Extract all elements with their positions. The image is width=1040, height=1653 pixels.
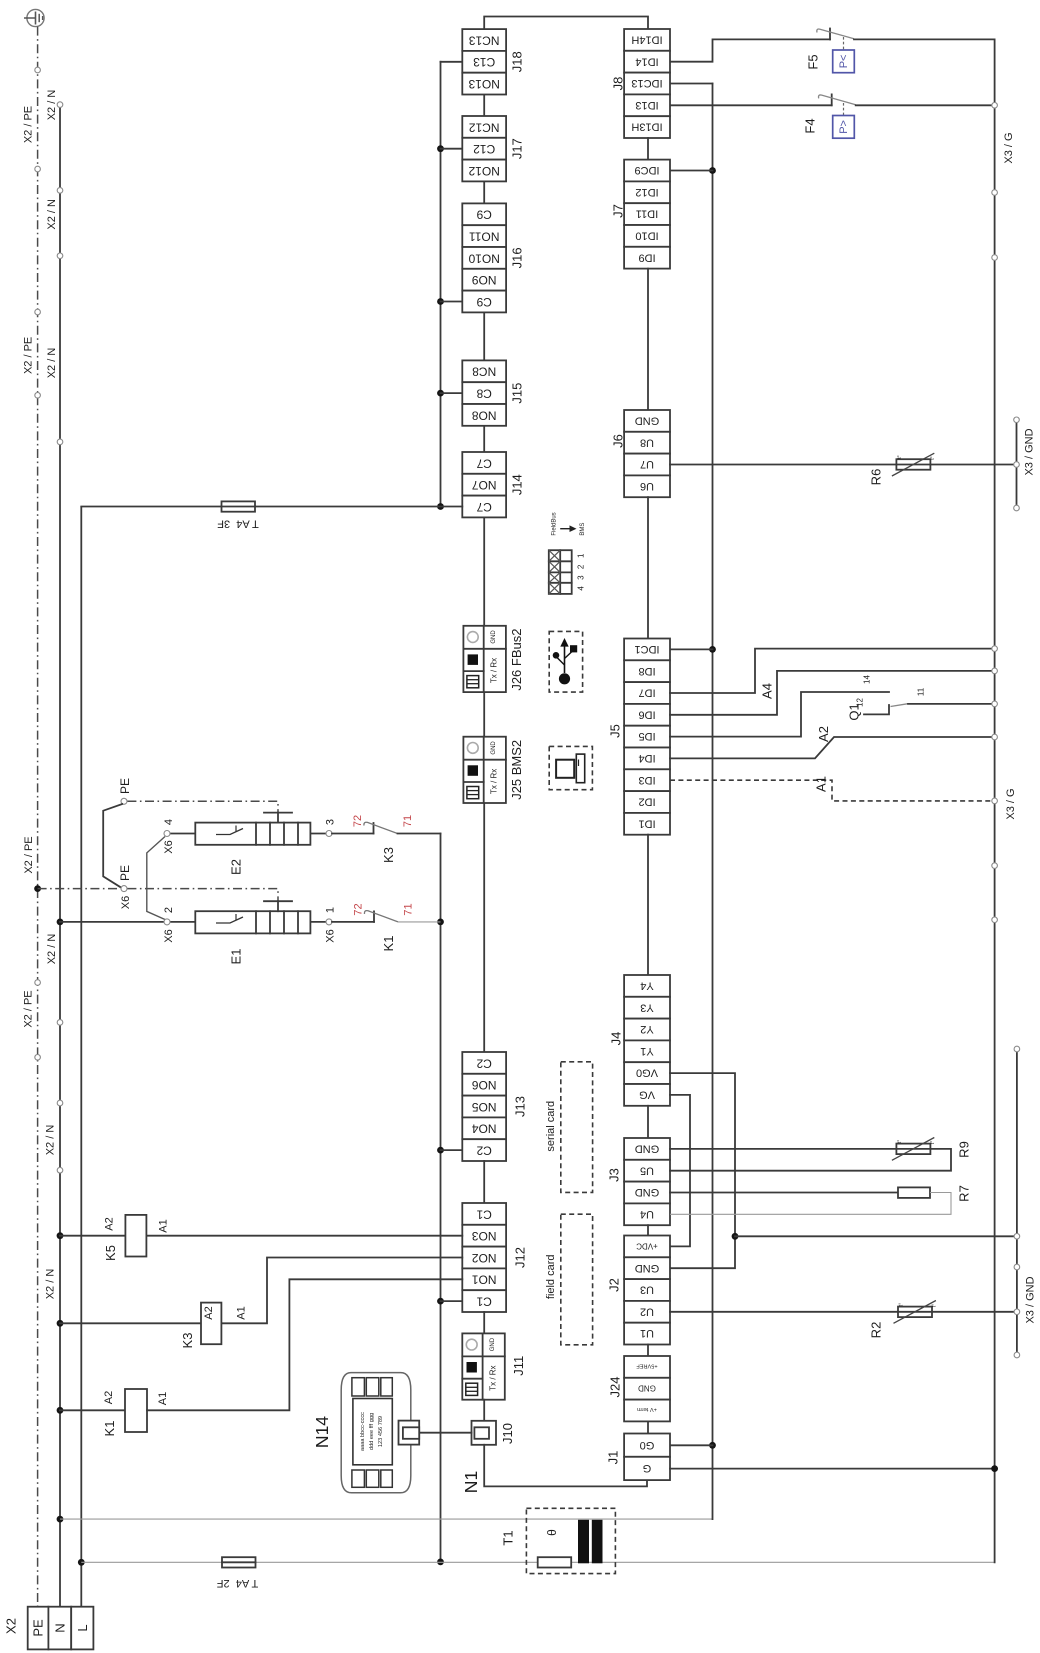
wire R9 return to U5 — [670, 1149, 951, 1171]
svg-text:A4: A4 — [760, 683, 775, 699]
svg-text:2: 2 — [163, 907, 175, 913]
svg-text:X2 / PE: X2 / PE — [22, 106, 34, 143]
svg-text:U3: U3 — [640, 1284, 654, 1296]
relay coil K3 — [57, 1258, 463, 1349]
svg-text:ID5: ID5 — [638, 730, 655, 742]
svg-text:71: 71 — [402, 815, 414, 827]
svg-text:G0: G0 — [640, 1439, 655, 1451]
thermistor R6 — [869, 453, 937, 485]
terminal block X2 — [4, 1607, 94, 1650]
wire link J15-J14 — [483, 426, 485, 452]
wire ID5 to Q1 — [670, 692, 889, 737]
fuse F2 — [217, 1557, 259, 1589]
wire common bus upper segment (C13..C7/F3) — [440, 62, 442, 507]
wire L rail from F3 down to X2 — [80, 507, 82, 1607]
svg-text:P<: P< — [838, 55, 850, 69]
PC / monitor icon (dashed) — [549, 746, 592, 789]
svg-text:X2 / N: X2 / N — [46, 199, 58, 230]
svg-text:4: 4 — [577, 586, 586, 591]
svg-text:Tx / Rx: Tx / Rx — [489, 1365, 498, 1390]
svg-text:BMS: BMS — [580, 523, 586, 536]
wire link J6-J5 — [647, 497, 649, 638]
connector J3 — [607, 1138, 671, 1225]
svg-text:A2: A2 — [203, 1306, 215, 1319]
svg-text:J10: J10 — [500, 1423, 515, 1444]
wire A2 (ID4 to X3/G) — [670, 737, 995, 758]
wire IDC1 to bus — [670, 648, 713, 650]
relay coil K5 — [57, 1215, 463, 1261]
svg-text:X2 / N: X2 / N — [46, 90, 58, 121]
connector J13 — [462, 1052, 527, 1161]
svg-text:GND: GND — [635, 415, 660, 427]
wire GND to R7 — [670, 1192, 898, 1194]
svg-text:1: 1 — [324, 907, 336, 913]
svg-text:X2 / PE: X2 / PE — [23, 836, 35, 873]
connector J4 — [609, 975, 671, 1106]
wire link J13-J12 — [483, 1161, 485, 1203]
jumper block 4x2 — [549, 550, 586, 594]
svg-text:NO2: NO2 — [472, 1251, 497, 1265]
junction C8 row — [437, 390, 444, 397]
svg-text:J14: J14 — [510, 474, 525, 495]
svg-text:J16: J16 — [510, 247, 525, 268]
thermistor R2 — [869, 1301, 938, 1339]
wire common bus lower segment (K contacts, C2, C1 to L line) — [440, 834, 442, 1562]
wire N rail to E1 — [57, 919, 196, 926]
transformer T1 — [501, 1508, 616, 1573]
svg-text:1: 1 — [577, 553, 586, 558]
wire ID13 to F4 — [670, 104, 832, 106]
svg-text:PE: PE — [118, 778, 132, 794]
svg-text:ID14H: ID14H — [631, 34, 662, 46]
wire link J24-J1 — [647, 1421, 649, 1433]
wire J10 to N14 — [419, 1432, 471, 1434]
svg-text:+V term: +V term — [637, 1406, 657, 1412]
svg-text:J8: J8 — [611, 77, 626, 91]
wire link J14-J26 — [483, 517, 485, 625]
svg-text:PE: PE — [31, 1619, 46, 1637]
svg-text:+5VREF: +5VREF — [636, 1363, 658, 1369]
wire C2 row — [441, 1149, 463, 1151]
wire link J18-J17 — [483, 95, 485, 117]
pressure switch F4 — [803, 94, 856, 138]
svg-text:t°: t° — [932, 1304, 938, 1307]
svg-text:ID6: ID6 — [638, 708, 655, 720]
svg-text:C1: C1 — [476, 1295, 492, 1309]
svg-text:X2 / N: X2 / N — [46, 934, 58, 965]
connector J26 FBus2 — [463, 626, 524, 692]
svg-text:NO10: NO10 — [468, 251, 500, 265]
svg-text:ID12: ID12 — [635, 186, 658, 198]
svg-text:NO5: NO5 — [472, 1100, 497, 1114]
wire F4 to X3/G — [856, 104, 995, 106]
svg-text:C8: C8 — [476, 387, 492, 401]
svg-text:J11: J11 — [511, 1356, 526, 1376]
wire X3/GND rail segment 2 — [1016, 1049, 1018, 1355]
wire IDC common bus (x=712) — [712, 84, 714, 1520]
svg-text:J17: J17 — [510, 138, 525, 159]
wire Q1 to X3/G — [908, 703, 995, 705]
connector J24 — [608, 1356, 671, 1421]
svg-text:A1: A1 — [157, 1219, 169, 1232]
wire IDC9 to bus — [670, 170, 713, 172]
wire N to G0 bus (transformer secondary common) — [57, 1516, 713, 1523]
wire C1 row — [441, 1300, 463, 1302]
connector J5 — [608, 639, 671, 835]
svg-text:VG0: VG0 — [636, 1067, 658, 1079]
svg-text:Tx / Rx: Tx / Rx — [490, 769, 499, 794]
wire VG0 to GND J2 — [670, 1073, 735, 1268]
svg-text:J24: J24 — [608, 1377, 623, 1398]
contact K1 (71-72) — [352, 903, 440, 951]
svg-text:R9: R9 — [957, 1141, 972, 1158]
svg-text:C9: C9 — [476, 208, 492, 222]
svg-text:4: 4 — [163, 819, 175, 825]
svg-text:K1: K1 — [381, 936, 396, 952]
wire G to X3/G — [670, 1468, 995, 1470]
svg-text:J26 FBus2: J26 FBus2 — [509, 629, 524, 691]
svg-text:3: 3 — [324, 819, 336, 825]
svg-text:ID9: ID9 — [638, 251, 655, 263]
wire C12 row — [441, 148, 463, 150]
connector J1 — [606, 1434, 671, 1481]
serial card dashed box — [561, 1062, 593, 1193]
connector J25 BMS2 — [463, 737, 524, 803]
junction G row on X3/G — [991, 1465, 998, 1472]
connector J17 — [462, 116, 524, 181]
svg-text:J7: J7 — [611, 204, 626, 218]
svg-text:field card: field card — [545, 1254, 557, 1299]
svg-text:14: 14 — [863, 675, 872, 684]
svg-text:J2: J2 — [607, 1278, 622, 1292]
svg-text:72: 72 — [352, 903, 364, 915]
svg-text:X6: X6 — [163, 929, 175, 942]
svg-text:C13: C13 — [473, 55, 495, 69]
junction VG0 branch to X3/GND — [732, 1233, 739, 1240]
svg-text:NO9: NO9 — [472, 273, 497, 287]
controller N1 outline bottom — [484, 1445, 647, 1487]
svg-text:aaaa bbcc-cccc: aaaa bbcc-cccc — [360, 1412, 366, 1451]
wire link J17-J16 — [483, 181, 485, 203]
svg-text:NO12: NO12 — [468, 164, 500, 178]
wire F3 row from L rail to C7 — [81, 506, 462, 508]
wire top link J18 to J8 — [484, 17, 648, 30]
svg-text:T1: T1 — [501, 1530, 516, 1545]
svg-text:X6: X6 — [324, 929, 336, 942]
svg-text:A2: A2 — [103, 1391, 115, 1404]
svg-text:IDC13: IDC13 — [631, 77, 662, 89]
wire X3/GND rail segment 1 — [1016, 420, 1018, 508]
junction bus to L secondary line — [437, 1559, 444, 1566]
svg-text:K1: K1 — [102, 1421, 117, 1437]
heater E2 — [163, 813, 374, 875]
svg-text:X2 / PE: X2 / PE — [23, 990, 35, 1027]
svg-text:G: G — [643, 1462, 652, 1474]
svg-text:71: 71 — [402, 903, 414, 915]
svg-text:N14: N14 — [312, 1416, 332, 1448]
wire link J26-J25 — [483, 692, 485, 737]
svg-text:J4: J4 — [609, 1032, 624, 1046]
heater E1 — [163, 901, 374, 964]
svg-text:t°: t° — [930, 456, 936, 459]
svg-text:U5: U5 — [640, 1164, 654, 1176]
svg-text:K5: K5 — [103, 1245, 118, 1261]
field card dashed box — [561, 1214, 593, 1345]
svg-text:ddd eee fff ggg: ddd eee fff ggg — [369, 1413, 375, 1450]
svg-text:A2: A2 — [103, 1217, 115, 1230]
junction G0 — [709, 1442, 716, 1449]
svg-text:t°: t° — [930, 1141, 936, 1144]
svg-text:X2 / N: X2 / N — [46, 348, 58, 379]
svg-text:C9: C9 — [476, 295, 492, 309]
svg-text:NC13: NC13 — [469, 33, 500, 47]
svg-text:NO8: NO8 — [472, 408, 497, 422]
svg-text:NO11: NO11 — [469, 230, 500, 244]
svg-text:GND: GND — [635, 1262, 660, 1274]
svg-text:Y2: Y2 — [640, 1023, 653, 1035]
wire X2/N rail — [59, 105, 61, 1607]
svg-text:J18: J18 — [510, 51, 525, 72]
svg-text:NO13: NO13 — [468, 77, 500, 91]
svg-text:X6: X6 — [163, 840, 175, 853]
auxiliary contact Q1 — [847, 675, 926, 721]
wire link J5-J4 — [647, 835, 649, 975]
svg-text:NO3: NO3 — [472, 1229, 497, 1243]
svg-text:U1: U1 — [640, 1327, 654, 1339]
connector J2 — [607, 1236, 671, 1345]
wire C9 row — [441, 301, 463, 303]
wire A1 dashed (ID3 to X3/G) — [670, 780, 995, 801]
svg-text:C7: C7 — [476, 456, 492, 470]
wire link J3-J2 — [647, 1225, 649, 1235]
svg-text:Y1: Y1 — [640, 1045, 653, 1057]
wire link J11-J10 — [483, 1400, 485, 1421]
connector J18 — [462, 29, 524, 94]
svg-text:N1: N1 — [461, 1471, 481, 1493]
svg-text:X2 / N: X2 / N — [44, 1269, 56, 1300]
svg-text:serial card: serial card — [545, 1101, 557, 1152]
svg-text:t°: t° — [897, 455, 903, 458]
connector J15 — [462, 360, 524, 425]
wire R7 return to U4 — [670, 1193, 951, 1215]
svg-text:t°: t° — [899, 1303, 905, 1306]
svg-text:Y3: Y3 — [640, 1001, 653, 1013]
svg-text:J1: J1 — [606, 1451, 621, 1465]
svg-text:A1: A1 — [157, 1392, 169, 1405]
svg-text:C2: C2 — [476, 1056, 492, 1070]
wire link J12-J11 — [483, 1312, 485, 1333]
svg-text:X2 / N: X2 / N — [44, 1125, 56, 1156]
node markers on X3/G rail — [992, 103, 998, 923]
svg-text:K3: K3 — [381, 847, 396, 863]
svg-text:ID7: ID7 — [638, 687, 655, 699]
junction C12 row — [437, 145, 444, 152]
svg-text:ID13H: ID13H — [631, 121, 662, 133]
svg-text:72: 72 — [352, 815, 364, 827]
svg-text:GND: GND — [491, 741, 497, 755]
svg-text:NO7: NO7 — [472, 478, 497, 492]
svg-text:NO4: NO4 — [472, 1122, 497, 1136]
wire branch to X3/GND — [735, 1235, 1017, 1237]
svg-text:θ: θ — [545, 1529, 559, 1536]
svg-text:J5: J5 — [608, 724, 623, 738]
svg-text:ID8: ID8 — [638, 665, 655, 677]
wire A4 (ID7 to X3/G) — [670, 649, 995, 693]
svg-text:IDC1: IDC1 — [634, 643, 659, 655]
svg-text:NC8: NC8 — [472, 365, 496, 379]
wire X3/G rail — [994, 39, 996, 1562]
junction IDC1 — [709, 646, 716, 653]
svg-text:GND: GND — [635, 1186, 660, 1198]
svg-text:J25 BMS2: J25 BMS2 — [509, 740, 524, 800]
wire link J2-J24 — [647, 1345, 649, 1357]
connector J10 — [472, 1421, 516, 1445]
connector J14 — [462, 452, 524, 517]
wire IDC13 to bus — [670, 83, 713, 85]
svg-text:X3 / G: X3 / G — [1003, 132, 1015, 163]
svg-text:N: N — [52, 1623, 67, 1632]
connector J11 — [462, 1333, 526, 1399]
wire X2/PE rail (dash-dot) — [37, 27, 39, 1607]
connector J8 — [611, 29, 671, 138]
wire VG to +VDC — [670, 1095, 690, 1247]
svg-text:GND: GND — [638, 1384, 656, 1393]
svg-text:U6: U6 — [640, 480, 654, 492]
svg-text:R2: R2 — [869, 1322, 884, 1339]
svg-text:ID11: ID11 — [636, 208, 658, 220]
wire C8 row — [441, 392, 463, 394]
svg-text:123 456 789: 123 456 789 — [378, 1416, 384, 1447]
svg-text:X3 / GND: X3 / GND — [1024, 428, 1036, 475]
svg-text:ID1: ID1 — [638, 817, 655, 829]
svg-text:NO6: NO6 — [472, 1078, 497, 1092]
connector J16 — [462, 203, 524, 312]
svg-text:R7: R7 — [957, 1185, 972, 1202]
node markers on N rail — [57, 102, 63, 1173]
wire link J7-J6 — [647, 269, 649, 410]
svg-text:GND: GND — [490, 1337, 496, 1351]
relay coil K1 — [57, 1279, 463, 1436]
contact K3 (71-72) — [352, 815, 441, 863]
svg-text:ID14: ID14 — [635, 55, 658, 67]
junction C1 row — [437, 1298, 444, 1305]
svg-text:ID3: ID3 — [638, 774, 655, 786]
svg-text:Y4: Y4 — [640, 980, 653, 992]
wire link J25-J13 — [483, 803, 485, 1052]
svg-text:GND: GND — [491, 630, 497, 644]
junction F3 row — [437, 503, 444, 510]
svg-text:E1: E1 — [229, 949, 244, 965]
ground PE terminal symbol — [24, 9, 44, 26]
wire R6 to X3/GND — [930, 464, 1016, 466]
svg-text:U2: U2 — [640, 1305, 654, 1317]
FieldBus / BMS selector note — [552, 512, 587, 535]
wire GND to R9 — [670, 1148, 896, 1150]
svg-text:E2: E2 — [229, 859, 244, 875]
svg-text:J13: J13 — [513, 1096, 528, 1117]
svg-text:Q1: Q1 — [847, 703, 862, 720]
svg-text:A1: A1 — [235, 1306, 247, 1319]
svg-text:C1: C1 — [476, 1207, 492, 1221]
pressure switch F5 — [806, 29, 855, 73]
node markers on PE rail — [35, 67, 41, 1060]
wire PE link between X6 terminals — [103, 804, 122, 887]
svg-text:J12: J12 — [513, 1247, 528, 1268]
wire G0 to bus — [670, 1444, 713, 1446]
svg-text:NC12: NC12 — [469, 120, 500, 134]
svg-text:L: L — [75, 1624, 90, 1631]
svg-text:A1: A1 — [814, 776, 829, 792]
svg-text:J3: J3 — [607, 1168, 622, 1182]
svg-text:NO1: NO1 — [472, 1273, 497, 1287]
svg-text:T A4 2F: T A4 2F — [217, 1577, 259, 1589]
thermistor R9 — [892, 1138, 972, 1161]
svg-text:X6: X6 — [120, 896, 132, 909]
svg-text:PE: PE — [118, 865, 132, 881]
svg-text:t°: t° — [897, 1140, 903, 1143]
svg-text:U7: U7 — [640, 458, 654, 470]
PE branch to E2 (dash-dot) — [118, 778, 278, 813]
svg-text:F4: F4 — [803, 118, 818, 133]
svg-text:ID4: ID4 — [638, 752, 655, 764]
fuse F3 — [217, 501, 259, 529]
svg-text:11: 11 — [917, 687, 926, 696]
svg-text:U4: U4 — [640, 1208, 654, 1220]
svg-text:F5: F5 — [806, 54, 821, 69]
svg-text:ID13: ID13 — [635, 99, 658, 111]
svg-text:X2: X2 — [4, 1618, 19, 1634]
junction C9 row — [437, 298, 444, 305]
junction IDC9 — [709, 167, 716, 174]
svg-text:2: 2 — [577, 564, 586, 569]
wire U7 to R6 — [670, 464, 896, 466]
svg-text:T A4 3F: T A4 3F — [217, 518, 259, 530]
wire link J4-J3 — [647, 1106, 649, 1138]
svg-text:ID2: ID2 — [638, 796, 655, 808]
wire C13 row — [441, 61, 463, 63]
PE branch from rail to X6/PE (dash-dot) — [34, 865, 278, 909]
junction C2 row — [437, 1147, 444, 1154]
svg-text:+VDC: +VDC — [636, 1241, 658, 1250]
svg-text:K3: K3 — [180, 1333, 195, 1349]
svg-text:VG: VG — [639, 1089, 655, 1101]
wire R2 to X3/GND — [932, 1311, 1017, 1313]
svg-text:FieldBus: FieldBus — [552, 512, 558, 535]
wire F5 to X3/G — [854, 38, 995, 40]
resistor R7 — [898, 1185, 972, 1202]
svg-text:X2 / PE: X2 / PE — [22, 337, 34, 374]
connector J6 — [611, 410, 671, 497]
display terminal N14 — [312, 1373, 419, 1493]
svg-text:A2: A2 — [816, 726, 831, 742]
junction K1 row — [437, 919, 444, 926]
svg-text:C7: C7 — [476, 500, 492, 514]
wire ID6 to X3/G — [670, 671, 995, 715]
wire X6 link 4-2 — [147, 837, 165, 920]
svg-text:U8: U8 — [640, 436, 654, 448]
svg-text:Tx / Rx: Tx / Rx — [490, 658, 499, 683]
wire link J8-J7 — [647, 138, 649, 160]
USB icon (dashed) — [549, 631, 582, 692]
wire L secondary line through F2 and T1 — [78, 1559, 995, 1566]
svg-text:P>: P> — [838, 120, 850, 134]
connector J7 — [611, 160, 671, 269]
svg-text:ID10: ID10 — [635, 230, 658, 242]
wire ID14 to F5 — [670, 39, 830, 61]
svg-text:GND: GND — [635, 1143, 660, 1155]
svg-text:X3 / GND: X3 / GND — [1025, 1276, 1037, 1323]
svg-text:C12: C12 — [473, 142, 495, 156]
